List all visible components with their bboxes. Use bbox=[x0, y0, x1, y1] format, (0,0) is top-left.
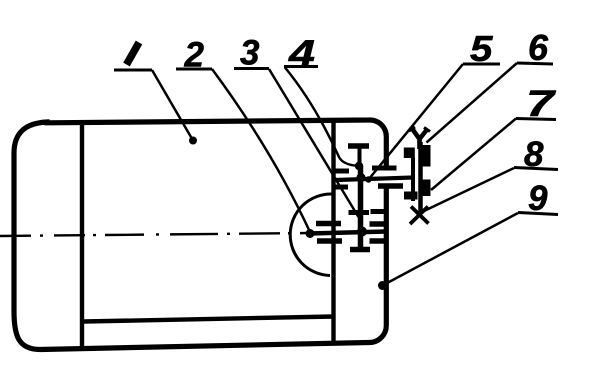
output shaft line A bbox=[411, 158, 415, 201]
gear block left upper bbox=[404, 148, 415, 159]
bearing bar wall top bbox=[372, 166, 397, 171]
output X fork bbox=[410, 207, 429, 225]
gear G3 right top bar bbox=[370, 221, 386, 227]
label 8 underline bbox=[514, 168, 558, 170]
main shaft junction dot bbox=[357, 227, 367, 237]
svg-text:3: 3 bbox=[240, 34, 260, 73]
gear G3 left top bar bbox=[316, 221, 341, 227]
bevel gear block upper bbox=[421, 145, 431, 167]
label 1 digit bbox=[127, 43, 140, 65]
leader 6 bbox=[427, 63, 518, 143]
gear G3 right bottom bar bbox=[370, 238, 386, 244]
inner bottom line bbox=[84, 317, 334, 322]
bevel gear block lower bbox=[419, 180, 431, 197]
output Y fork bbox=[412, 129, 427, 150]
gear G2 bottom bar bbox=[350, 247, 370, 253]
inner wall line right bbox=[331, 118, 335, 344]
leader 4 bbox=[285, 68, 359, 167]
leader 8 bbox=[424, 168, 514, 211]
Y fork right tip serif bbox=[424, 128, 430, 132]
leader 2 bbox=[212, 69, 310, 232]
upper shaft junction dot bbox=[357, 173, 366, 182]
gear G1 top bar bbox=[348, 143, 369, 149]
gear G3 left bottom bar bbox=[317, 238, 342, 244]
leader 3 bbox=[269, 69, 359, 217]
svg-text:4: 4 bbox=[288, 33, 315, 76]
motor housing outline bbox=[14, 120, 386, 350]
svg-text:6: 6 bbox=[528, 27, 549, 68]
leader 1 bbox=[152, 70, 193, 141]
bearing circle bbox=[290, 194, 332, 276]
main horizontal shaft bbox=[309, 232, 385, 234]
bearing bar wall bottom bbox=[378, 183, 403, 189]
leader 5 dot bbox=[365, 176, 371, 182]
centerline bbox=[0, 233, 314, 236]
collar bar bbox=[404, 192, 418, 200]
node: leader 2 dot bbox=[306, 229, 315, 238]
label 2 underline bbox=[176, 68, 212, 71]
gear G2 top bar bbox=[349, 210, 370, 215]
vertical shaft S2 bbox=[358, 166, 364, 249]
gear G1 stem bbox=[358, 146, 362, 166]
leader 9 bbox=[383, 213, 519, 286]
label 1 underline bbox=[114, 69, 152, 72]
leader 9 dot bbox=[378, 281, 387, 290]
label 3 underline bbox=[234, 67, 269, 70]
label 4 underline bbox=[284, 65, 318, 68]
node: leader 4 dot bbox=[355, 162, 363, 170]
upper horizontal shaft bbox=[336, 178, 413, 181]
label 7 underline bbox=[516, 119, 556, 120]
wall bar upper bbox=[371, 209, 386, 214]
wall shaft hole (gap in right edge) bbox=[382, 171, 391, 185]
label 9 underline bbox=[518, 213, 558, 215]
inner wall line left bbox=[80, 120, 84, 349]
leader 7 bbox=[431, 119, 516, 191]
bearing bar inner bottom bbox=[334, 185, 348, 190]
Y fork left tip serif bbox=[409, 127, 415, 131]
label 5 underline bbox=[463, 63, 500, 66]
leader 1 dot bbox=[189, 137, 197, 145]
output shaft line B bbox=[418, 142, 423, 212]
bearing bar inner top bbox=[334, 169, 349, 174]
label 6 underline bbox=[517, 63, 553, 64]
leader 5 bbox=[369, 64, 464, 180]
